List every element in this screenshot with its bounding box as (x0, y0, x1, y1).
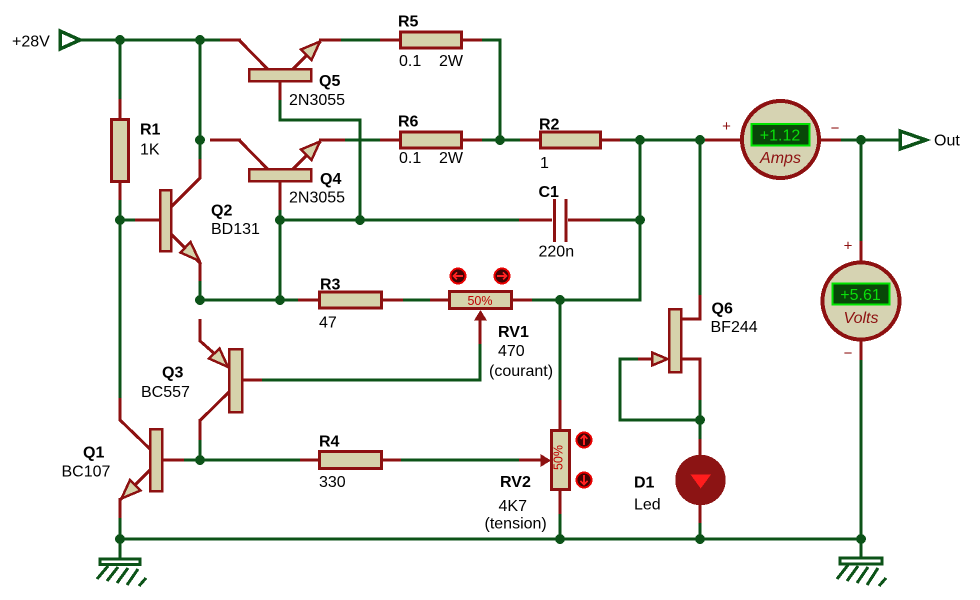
wire Amps to Out (840, 139, 900, 142)
svg-text:R4: R4 (319, 434, 340, 451)
svg-text:50%: 50% (467, 294, 492, 308)
svg-text:Led: Led (634, 497, 661, 514)
wire y=460 node to R4 (200, 459, 301, 462)
wire Q3 collector tail (199, 439, 202, 460)
wire R1 bottom to node (119, 199, 122, 221)
svg-text:Q4: Q4 (320, 171, 341, 188)
transistor Q3 (141, 319, 262, 440)
wire bottom rail (120, 538, 861, 541)
svg-text:Volts: Volts (844, 310, 879, 327)
svg-text:+: + (844, 238, 853, 255)
resistor R2 (520, 117, 620, 173)
svg-text:2W: 2W (439, 150, 464, 167)
svg-text:R5: R5 (398, 14, 419, 31)
svg-text:470: 470 (498, 343, 525, 360)
svg-text:1K: 1K (140, 142, 160, 159)
svg-text:+1.12: +1.12 (760, 128, 801, 145)
wire ground stub right (860, 539, 863, 559)
svg-text:−: − (844, 345, 853, 362)
transistor Q5 (220, 40, 345, 109)
ammeter (Amps) (705, 101, 841, 178)
wire node y=220 horizontal to C1 (280, 219, 531, 222)
svg-text:Amps: Amps (759, 150, 801, 167)
ground left (97, 559, 146, 586)
wire RV1 wiper to Q3 base (261, 343, 480, 380)
wire Q1 base stub (183, 459, 200, 462)
svg-text:RV1: RV1 (498, 324, 529, 341)
resistor R1 (112, 99, 161, 200)
capacitor C1 (519, 184, 600, 261)
svg-text:BC107: BC107 (62, 464, 111, 481)
svg-text:220n: 220n (539, 244, 575, 261)
wire Q2 base stub (120, 219, 136, 222)
svg-text:Out: Out (934, 133, 960, 150)
wire Q5 emitter to R5 (339, 39, 381, 42)
terminal Out (900, 131, 960, 150)
wire Q4 base to node (279, 209, 282, 221)
RV2 adjust button up (577, 433, 592, 448)
wire R1 top column (119, 40, 122, 100)
transistor Q4 (210, 140, 345, 210)
svg-text:BF244: BF244 (711, 319, 758, 336)
svg-text:2W: 2W (439, 53, 464, 70)
wire RV2 bottom to rail (559, 513, 562, 539)
wire top rail y=40 (80, 39, 221, 42)
wire R5 to right rail corner x=500 (481, 40, 500, 140)
svg-text:4K7: 4K7 (499, 498, 528, 515)
wire R6 to R2 (481, 139, 521, 142)
svg-text:Q5: Q5 (319, 73, 340, 90)
transistor Q2 (135, 159, 260, 281)
resistor R4 (300, 434, 401, 492)
wire node x=640 up to R2 output (639, 140, 642, 220)
wire D1 to bottom rail (699, 522, 702, 539)
wire C1 to node x=640 and down to RV1 node (560, 220, 640, 300)
wire R3 to RV1 (402, 299, 431, 302)
resistor R3 (298, 277, 403, 332)
voltmeter (Volts) (823, 238, 900, 363)
JFET Q6 (638, 295, 758, 400)
wire Q5 base route (280, 99, 360, 220)
RV2 adjust button down (577, 473, 592, 488)
wire y=300 node run (200, 299, 299, 302)
svg-text:Q2: Q2 (211, 203, 232, 220)
wire ground stub left (119, 539, 122, 559)
svg-text:C1: C1 (539, 184, 560, 201)
terminal +28V (12, 31, 80, 51)
svg-text:R6: R6 (398, 114, 419, 131)
svg-text:RV2: RV2 (500, 474, 531, 491)
potentiometer RV2 (485, 400, 570, 533)
wire node to D1 (699, 420, 702, 440)
svg-text:(tension): (tension) (485, 516, 547, 533)
svg-text:47: 47 (319, 315, 337, 332)
svg-text:0.1: 0.1 (399, 53, 421, 70)
wire Q4 emitter to R6 (344, 139, 381, 142)
svg-text:50%: 50% (552, 445, 566, 470)
wire Q6 gate loop (620, 359, 700, 420)
wire R2 to Amps meter (619, 139, 707, 142)
wire Q6 source tail (699, 399, 702, 420)
svg-text:Q6: Q6 (712, 301, 733, 318)
wire out node down to Volts (860, 140, 863, 242)
wire node x=280 down (279, 220, 282, 300)
transistor Q1 (62, 398, 185, 518)
svg-text:BC557: BC557 (141, 384, 190, 401)
svg-text:BD131: BD131 (211, 221, 260, 238)
potentiometer RV1 (430, 292, 553, 381)
resistor R5 (380, 14, 482, 71)
svg-text:+28V: +28V (12, 34, 50, 51)
svg-text:Q3: Q3 (162, 365, 183, 382)
ground right (837, 558, 886, 586)
svg-text:+: + (722, 118, 731, 135)
svg-text:+5.61: +5.61 (840, 287, 881, 304)
junction node dots (115, 35, 866, 544)
svg-text:2N3055: 2N3055 (289, 92, 345, 109)
wire node x=560 down to RV2 (559, 300, 562, 401)
svg-text:2N3055: 2N3055 (289, 190, 345, 207)
wire R4 to RV2 wiper (400, 459, 520, 462)
wire Q2 emitter tail (199, 280, 202, 300)
resistor R6 (380, 114, 482, 168)
RV1 adjust button left (451, 269, 466, 284)
wire x=200 column top (199, 40, 202, 160)
LED D1 (634, 439, 726, 523)
wire Volts to bottom right ground (860, 359, 863, 541)
wire RV1 right lead to node (531, 299, 560, 302)
svg-text:−: − (831, 120, 840, 137)
svg-text:330: 330 (319, 474, 346, 491)
svg-text:Q1: Q1 (83, 445, 104, 462)
svg-text:1: 1 (540, 155, 549, 172)
wire node x=120 down to Q1 collector (119, 220, 122, 399)
svg-text:R1: R1 (140, 122, 161, 139)
svg-text:0.1: 0.1 (399, 150, 421, 167)
svg-text:R2: R2 (539, 117, 560, 134)
RV1 adjust button right (495, 269, 510, 284)
wire Q6 drain column (699, 140, 702, 296)
svg-text:R3: R3 (320, 277, 341, 294)
wire Q1 emitter to bottom rail (119, 517, 122, 539)
svg-text:D1: D1 (634, 475, 655, 492)
svg-text:(courant): (courant) (489, 363, 553, 380)
